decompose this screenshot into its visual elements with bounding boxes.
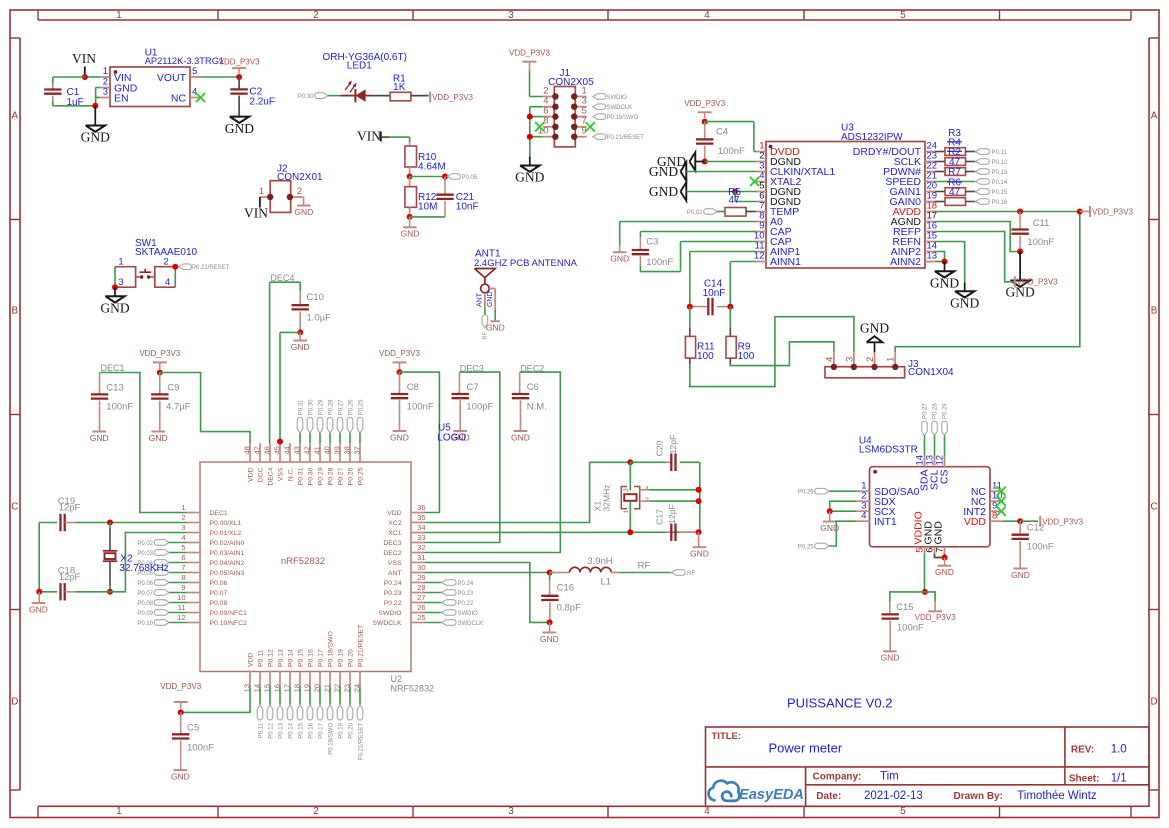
wire DEC3 to U2 pin33: [425, 372, 500, 542]
svg-text:P0.06: P0.06: [137, 581, 153, 587]
svg-text:P0.10: P0.10: [137, 621, 153, 627]
resistor R11 100: [689, 307, 691, 328]
svg-text:XC2: XC2: [388, 520, 401, 527]
svg-text:C: C: [11, 502, 18, 513]
U2 bottom pins 13-24: [249, 672, 251, 687]
U2 right pins 36-25: [411, 512, 425, 514]
node junction C8 top: [397, 369, 403, 375]
svg-text:P0.18/SWO: P0.18/SWO: [327, 631, 334, 667]
svg-text:P0.15: P0.15: [298, 722, 304, 738]
resistor 47 (pin23): [945, 158, 966, 166]
svg-text:DEC1: DEC1: [210, 510, 228, 517]
node junction SDX/SCX: [827, 508, 833, 514]
svg-text:C13: C13: [106, 383, 123, 394]
resistor (pin19): [945, 198, 966, 206]
svg-text:2: 2: [297, 186, 302, 197]
svg-text:AINN2: AINN2: [890, 256, 921, 268]
svg-text:P0.26: P0.26: [798, 490, 814, 496]
svg-text:C10: C10: [307, 292, 324, 303]
svg-text:U2: U2: [391, 674, 403, 684]
net flag GND (SDX/SCX): [829, 511, 831, 521]
svg-text:P0.26: P0.26: [347, 467, 354, 485]
svg-text:32: 32: [417, 543, 425, 552]
capacitor C13 100nF: [99, 373, 101, 394]
svg-text:8: 8: [181, 573, 185, 582]
node junction pin5/pin6: [732, 189, 738, 195]
net flag GND (divider): [409, 217, 411, 227]
no-connect X U4 pin11: [997, 487, 1006, 496]
svg-text:1: 1: [886, 357, 897, 362]
svg-text:Date:: Date:: [816, 791, 841, 802]
wire AINP2 pin14: [935, 252, 945, 262]
svg-text:P0.29: P0.29: [318, 399, 324, 415]
wire pin2: [705, 161, 756, 163]
U2 bottom net ports P0.11-P0.21/RESET: [259, 687, 261, 705]
net flag GND (C10): [299, 332, 301, 340]
op-amp U1 AP2112K-3.3TRG1 body: [110, 67, 190, 107]
node junction C16 bottom: [547, 619, 553, 625]
svg-text:9: 9: [181, 583, 185, 592]
ground GND (J1): [520, 166, 539, 172]
svg-text:A: A: [12, 111, 19, 122]
svg-text:3: 3: [118, 277, 123, 288]
wire U2 pin2 XL1: [110, 522, 187, 524]
net port P0.16: [975, 199, 989, 205]
wire VDDIO down: [924, 554, 926, 592]
svg-text:GND: GND: [171, 771, 190, 781]
svg-text:11: 11: [178, 603, 186, 612]
svg-text:0.8pF: 0.8pF: [557, 602, 581, 613]
ANT1 GND pin: [489, 288, 495, 290]
svg-text:P0.11: P0.11: [257, 650, 264, 667]
ground GND (SW1): [105, 296, 124, 302]
wire P0.02 to R5: [717, 211, 725, 213]
svg-text:P0.02: P0.02: [137, 541, 153, 547]
resistor R1 1K: [390, 92, 411, 101]
svg-text:P0.23: P0.23: [458, 591, 474, 597]
svg-text:Sheet:: Sheet:: [1069, 774, 1100, 785]
svg-text:R7: R7: [948, 167, 961, 178]
J1 pins and numbers: [543, 96, 554, 98]
wire to port P0.15: [966, 191, 976, 193]
svg-text:CS: CS: [939, 470, 951, 485]
ground GND (AINP2/AINN2): [935, 271, 954, 277]
svg-text:P0.28: P0.28: [933, 403, 939, 419]
svg-text:VDD_P3V3: VDD_P3V3: [139, 349, 180, 358]
node junction R10/R12: [407, 174, 413, 180]
SW1 right contact body: [155, 267, 176, 288]
svg-text:GND: GND: [1005, 285, 1034, 300]
svg-text:C8: C8: [407, 382, 419, 393]
svg-text:7: 7: [181, 563, 185, 572]
svg-text:C16: C16: [557, 582, 574, 593]
no-connect X U4 pin9: [997, 507, 1006, 516]
node junction U4 gnd: [942, 555, 948, 561]
wire J1 pin6: [530, 116, 543, 118]
node junction SW1 pin2: [172, 264, 178, 270]
wire C19-C18 left rail: [38, 523, 40, 592]
node junction VDD/C12: [1017, 518, 1023, 524]
net flag VDD_P3V3 (J1): [523, 61, 537, 63]
svg-text:DEC4: DEC4: [267, 467, 274, 485]
svg-text:4: 4: [181, 533, 185, 542]
svg-text:P0.22: P0.22: [458, 601, 474, 607]
svg-text:EasyEDA: EasyEDA: [739, 787, 804, 803]
svg-text:P0.31: P0.31: [297, 467, 304, 485]
svg-text:P0.27: P0.27: [337, 467, 344, 485]
node junction left rail GND: [36, 589, 42, 595]
capacitor C3 100nF: [639, 237, 641, 250]
node junction C4 top: [702, 119, 708, 125]
capacitor C10 1.0uF: [299, 282, 301, 292]
node junction GND rail: [92, 103, 98, 109]
node junction J1 pin10: [527, 134, 533, 140]
svg-text:3.9nH: 3.9nH: [587, 556, 612, 567]
wire AINP1 pin11: [690, 251, 756, 253]
node junction C9 top: [157, 370, 163, 376]
svg-text:100nF: 100nF: [1027, 237, 1054, 248]
svg-text:LSM6DS3TR: LSM6DS3TR: [859, 444, 918, 455]
wire pin22 to R7: [935, 171, 945, 173]
wire rail to C20: [630, 461, 666, 463]
svg-text:26: 26: [417, 603, 425, 612]
U2 top pins 48-37: [249, 443, 251, 462]
svg-text:28: 28: [417, 583, 425, 592]
svg-text:RF: RF: [638, 561, 651, 572]
svg-text:GND: GND: [933, 521, 945, 545]
svg-text:P0.22: P0.22: [384, 600, 402, 607]
node junction C10/VSS: [297, 329, 303, 335]
svg-text:1: 1: [181, 503, 185, 512]
svg-text:GND: GND: [860, 321, 889, 336]
svg-text:VIN: VIN: [357, 128, 381, 143]
node junction ANT/C16: [547, 570, 553, 576]
wire U2 pin13 VDD: [181, 687, 250, 713]
U4 top pins 14,13,12 SDA SCL CS: [924, 457, 926, 467]
svg-text:NC: NC: [171, 92, 187, 104]
svg-text:Tim: Tim: [880, 771, 899, 783]
svg-text:P0.25: P0.25: [358, 399, 364, 415]
wire C1 bottom rail: [52, 101, 54, 106]
svg-text:P0.25: P0.25: [357, 467, 364, 485]
wire R11 to J3 pin3: [690, 317, 854, 387]
svg-text:GND: GND: [950, 295, 979, 310]
svg-text:2: 2: [163, 257, 168, 268]
node junction X1 bottom: [627, 529, 633, 535]
wire to port P0.13: [966, 171, 976, 173]
svg-text:GND: GND: [881, 653, 900, 663]
svg-text:1: 1: [103, 66, 108, 77]
capacitor C1: [52, 85, 54, 90]
svg-text:37: 37: [353, 446, 362, 454]
capacitor C11 100nF: [1019, 212, 1021, 230]
svg-text:3: 3: [844, 357, 855, 362]
svg-text:100nF: 100nF: [106, 402, 133, 413]
svg-text:4: 4: [824, 357, 835, 362]
svg-text:GND: GND: [294, 207, 313, 217]
svg-text:P0.14: P0.14: [288, 722, 294, 738]
capacitor C2: [238, 77, 240, 89]
svg-text:P0.29: P0.29: [943, 403, 949, 419]
svg-text:C3: C3: [646, 236, 658, 247]
svg-text:P0.09/NFC1: P0.09/NFC1: [210, 610, 248, 617]
svg-text:SWDIO: SWDIO: [458, 611, 479, 617]
U4 bottom pin5 VDDIO: [924, 547, 926, 554]
svg-text:ANT: ANT: [388, 570, 402, 577]
svg-text:5: 5: [900, 10, 906, 21]
svg-text:P0.13: P0.13: [992, 170, 1008, 176]
svg-text:P0.09: P0.09: [137, 611, 153, 617]
svg-text:48: 48: [243, 446, 252, 454]
logo EasyEDA: [709, 781, 740, 801]
wire pin3: [686, 171, 756, 173]
svg-text:44: 44: [283, 446, 292, 454]
wire C20 right vertical: [699, 462, 701, 532]
svg-text:VDD_P3V3: VDD_P3V3: [1017, 278, 1058, 287]
net port P0.14: [975, 179, 989, 185]
svg-text:P0.03/AIN1: P0.03/AIN1: [210, 550, 245, 557]
svg-text:P0.02/AIN0: P0.02/AIN0: [210, 540, 245, 547]
svg-text:2.2uF: 2.2uF: [249, 97, 275, 108]
ground GND (C2): [230, 117, 249, 123]
capacitor C5 100nF: [180, 712, 182, 733]
svg-text:C15: C15: [896, 602, 913, 613]
net port RF (antenna): [482, 315, 488, 328]
svg-text:P0.28: P0.28: [328, 399, 334, 415]
svg-text:GND: GND: [930, 275, 959, 290]
no-connect X J1 pin 8: [535, 122, 544, 131]
node junction VOUT: [236, 74, 242, 80]
wire VDD pin8: [1003, 520, 1020, 522]
svg-text:35: 35: [417, 513, 425, 522]
svg-text:C: C: [1150, 502, 1157, 513]
svg-text:4.64M: 4.64M: [418, 161, 446, 172]
svg-text:1: 1: [623, 510, 630, 514]
svg-text:VDD_P3V3: VDD_P3V3: [1092, 207, 1133, 216]
frame column ticks: [217, 10, 219, 20]
net flag GND (C8): [393, 430, 407, 432]
U4 bottom pin6 GND: [934, 547, 936, 554]
svg-text:VSS: VSS: [388, 560, 402, 567]
svg-text:100pF: 100pF: [466, 402, 493, 413]
svg-text:PUISSANCE V0.2: PUISSANCE V0.2: [787, 696, 893, 711]
svg-text:Company:: Company:: [813, 772, 862, 783]
net flag VDD_P3V3 (AVDD): [1080, 211, 1090, 213]
svg-text:GND: GND: [390, 432, 409, 442]
svg-text:36: 36: [417, 503, 425, 512]
svg-text:P0.10/NFC2: P0.10/NFC2: [210, 620, 248, 627]
wire AINN1 pin12: [730, 261, 756, 263]
node junction C14 left: [687, 304, 693, 310]
svg-text:GND: GND: [100, 300, 129, 315]
svg-text:29: 29: [417, 573, 425, 582]
svg-text:39: 39: [333, 446, 342, 454]
net flag GND (C5): [174, 769, 188, 771]
net port P0.15: [975, 189, 989, 195]
svg-text:P0.11: P0.11: [992, 150, 1008, 156]
svg-text:13: 13: [927, 251, 938, 262]
svg-text:5: 5: [181, 543, 185, 552]
capacitor C8 100nF: [399, 372, 401, 393]
svg-text:4: 4: [165, 277, 170, 288]
svg-text:P0.26: P0.26: [348, 399, 354, 415]
svg-text:P0.12: P0.12: [992, 160, 1008, 166]
svg-text:SWDIO: SWDIO: [378, 610, 401, 617]
svg-text:GND: GND: [486, 323, 505, 333]
net flag GND (C15): [883, 650, 897, 652]
U1 pin 1 VIN: [100, 76, 111, 78]
svg-text:12pF: 12pF: [59, 572, 81, 583]
wire R12 bottom: [410, 216, 445, 218]
net port P0.13: [975, 169, 989, 175]
svg-text:P0.00/XL1: P0.00/XL1: [210, 520, 242, 527]
wire VDD to U2 pin48: [160, 373, 250, 444]
svg-text:VOUT: VOUT: [157, 72, 187, 84]
svg-text:P0.23: P0.23: [384, 590, 402, 597]
wire VIN to R10: [381, 136, 389, 138]
svg-text:GND: GND: [90, 433, 109, 443]
svg-text:P0.24: P0.24: [384, 580, 402, 587]
net flag GND (C7): [453, 430, 467, 432]
svg-text:P0.06: P0.06: [210, 580, 228, 587]
svg-text:31: 31: [417, 553, 425, 562]
net flag VDD_P3V3 (VDDIO): [934, 602, 936, 612]
svg-text:DCC: DCC: [257, 467, 264, 482]
svg-text:12: 12: [754, 251, 765, 262]
net flag GND (C12): [1014, 568, 1028, 570]
J1 net ports SWDIO/SWDCLK/P0.18/P0.21: [593, 94, 606, 100]
svg-text:VDD: VDD: [247, 653, 254, 667]
svg-text:VDD_P3V3: VDD_P3V3: [1042, 518, 1083, 527]
wire VSS pin45 up: [279, 332, 281, 441]
svg-text:P0.30: P0.30: [308, 399, 314, 415]
wire J1 pin4 to GND rail: [530, 106, 543, 108]
net flag GND (U4): [944, 558, 946, 566]
svg-text:2: 2: [313, 10, 318, 21]
svg-text:12: 12: [177, 613, 185, 622]
svg-text:P0.25: P0.25: [798, 545, 814, 551]
svg-text:P0.15: P0.15: [992, 190, 1008, 196]
svg-text:4: 4: [192, 86, 197, 97]
svg-text:REV:: REV:: [1071, 745, 1094, 756]
wire XC2 to crystal rail: [425, 462, 631, 522]
J3 pins 4,3,2,1: [833, 352, 835, 366]
svg-text:1/1: 1/1: [1111, 773, 1127, 785]
svg-text:VDD_P3V3: VDD_P3V3: [509, 49, 550, 58]
svg-text:3: 3: [508, 10, 514, 21]
svg-text:VIN: VIN: [244, 206, 268, 221]
wire DEC2 to U2 pin32: [425, 372, 561, 552]
wire U1 pin3: [96, 97, 100, 99]
svg-text:P0.20: P0.20: [348, 722, 354, 738]
wire J1 pin10: [530, 136, 543, 138]
svg-text:33: 33: [417, 533, 425, 542]
svg-text:P0.13: P0.13: [278, 722, 284, 738]
wire AINN2 pin13: [935, 261, 945, 263]
net flag GND (J2): [303, 197, 305, 206]
svg-text:GND: GND: [1011, 570, 1030, 580]
svg-text:P0.14: P0.14: [287, 649, 294, 667]
svg-text:P0.28: P0.28: [327, 467, 334, 485]
svg-text:100nF: 100nF: [407, 402, 434, 413]
svg-text:P0.14: P0.14: [992, 180, 1008, 186]
net flag VDD_P3V3 (C9): [153, 361, 167, 363]
svg-text:10: 10: [177, 593, 185, 602]
resistor 47 (pin20): [945, 188, 966, 196]
wire pin23 to R..: [935, 161, 945, 163]
svg-text:100: 100: [738, 351, 755, 362]
svg-text:P0.17: P0.17: [318, 722, 324, 738]
wire R4 to port P0.11: [966, 151, 976, 153]
net flag VDD_P3V3 (R1): [429, 92, 431, 103]
wire pin5: [686, 191, 756, 193]
node junction J1 pin6: [527, 114, 533, 120]
svg-text:3: 3: [103, 86, 108, 97]
net flag GND (C13): [92, 431, 106, 433]
svg-text:P0.16: P0.16: [307, 649, 314, 667]
wire VDD to J1 pin2: [529, 71, 531, 97]
U4 bottom pin7 GND: [944, 547, 946, 554]
wire R9 to J3 pin4: [730, 342, 834, 366]
node junction X1 pin2: [696, 498, 702, 504]
svg-text:EN: EN: [114, 92, 129, 104]
svg-text:C9: C9: [167, 383, 179, 394]
wire L1 to RF port: [620, 572, 671, 574]
svg-text:C7: C7: [466, 382, 478, 393]
svg-text:100nF: 100nF: [1027, 542, 1054, 553]
U4 left pins 1-4: [857, 490, 870, 492]
svg-text:47: 47: [253, 446, 262, 454]
svg-text:34: 34: [417, 523, 425, 532]
svg-text:P0.12: P0.12: [268, 722, 274, 738]
wire SW1 to ground: [114, 287, 116, 296]
svg-text:C12: C12: [1027, 523, 1044, 534]
svg-text:AP2112K-3.3TRG1: AP2112K-3.3TRG1: [145, 56, 224, 66]
ground GND (U1): [86, 126, 105, 132]
svg-text:46: 46: [263, 446, 272, 454]
net flag GND (ANT1): [490, 320, 500, 322]
svg-text:D: D: [1150, 697, 1157, 708]
wire DEC1 to U2 pin1: [100, 373, 187, 513]
svg-text:VIN: VIN: [72, 51, 96, 66]
svg-text:5: 5: [900, 806, 906, 817]
no-connect X U4 pin10: [997, 497, 1006, 506]
capacitor C4 100nF: [704, 122, 706, 139]
resistor R7 (pin22): [945, 168, 966, 176]
svg-text:Timothée Wintz: Timothée Wintz: [1017, 790, 1097, 802]
wire to C15: [890, 592, 925, 602]
no-connect X J1 pin 7: [586, 122, 595, 131]
svg-text:100nF: 100nF: [897, 622, 924, 633]
svg-text:7: 7: [935, 548, 946, 553]
J2 pin 2: [291, 196, 304, 198]
svg-text:B: B: [1151, 306, 1158, 317]
svg-text:DEC2: DEC2: [383, 550, 401, 557]
svg-text:RF: RF: [687, 571, 695, 577]
svg-text:1: 1: [116, 806, 121, 817]
wire to port P0.12: [966, 161, 976, 163]
wire to port P0.16: [966, 201, 976, 203]
wire to ground: [94, 106, 96, 126]
svg-text:GND: GND: [291, 342, 310, 352]
svg-text:45: 45: [273, 446, 282, 454]
node junction AINN2: [942, 259, 948, 265]
wire VDD to U2 pin36: [400, 372, 440, 512]
wire SCX pin3: [830, 510, 857, 512]
node junction R12/C21: [407, 214, 413, 220]
svg-text:Power meter: Power meter: [769, 741, 843, 756]
resistor R10 4.64M: [409, 142, 411, 146]
